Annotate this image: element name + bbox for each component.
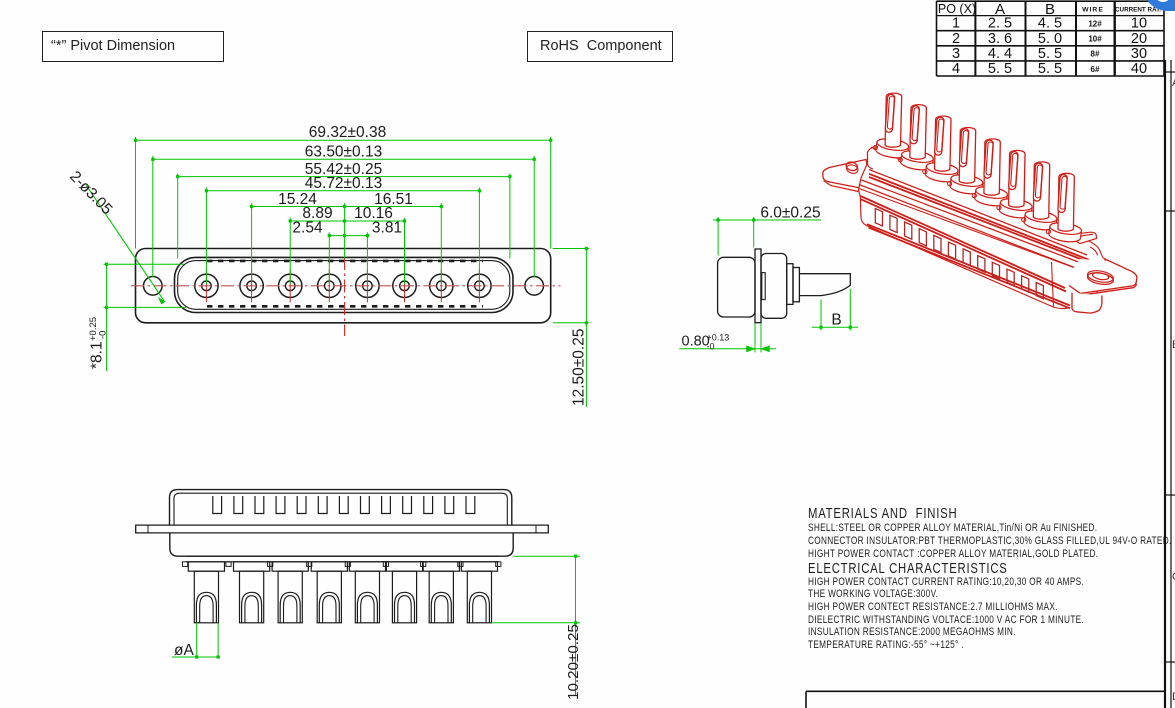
specification table — [0, 0, 1175, 90]
dimension 10.20±0.25 — [514, 555, 581, 557]
rear view: contact 5 barrel and pin — [349, 562, 385, 571]
3D view: top far edge — [871, 147, 1085, 239]
rear view: mounting flange — [136, 525, 549, 533]
side view: neck step 1 — [787, 264, 793, 305]
3D view: right end shell block edge — [1093, 283, 1097, 293]
front view: power contact 4 — [318, 274, 341, 297]
front view: power contact 2 — [240, 274, 263, 297]
3D view: flange left wing thickness edge — [824, 181, 864, 193]
front view: power contact 3 — [279, 274, 302, 297]
3D view: left end silhouette edges — [859, 147, 878, 197]
front view: connector body outline — [136, 249, 551, 323]
materials and finish notes — [808, 507, 1172, 652]
dimension 8.89 / 10.16 — [290, 220, 404, 222]
3D view: flange right wing thickness edge — [1080, 284, 1136, 295]
3D view: 12 skirt contact holes — [875, 209, 882, 227]
dimension 45.72±0.13 — [206, 190, 479, 192]
rear view: contact 4 barrel and pin — [311, 562, 347, 571]
3D view: mounting flange left wing — [823, 160, 868, 190]
3D view: right end cap block — [1085, 240, 1107, 275]
front view: shell edge dashes bottom — [207, 305, 483, 308]
front view: D-shell outer outline — [175, 257, 514, 312]
side view: contact flange plate — [755, 249, 761, 323]
front view: contact 2 red crosshair — [251, 269, 253, 302]
front view: D-shell inner outline — [178, 261, 510, 310]
3D view: mounting flange right wing — [1062, 259, 1137, 293]
rear view: contact 8 barrel and pin — [461, 562, 497, 571]
dimension 15.24 / 16.51 — [252, 206, 442, 208]
dimension øA — [196, 623, 198, 658]
front view: power contact 1 — [195, 274, 218, 297]
front view: power contact 5 — [356, 274, 379, 297]
front view: red vertical centerline — [344, 257, 346, 336]
side view: inner gasket line — [762, 273, 765, 300]
front view: power contact 6 — [393, 274, 416, 297]
rear view: contact 1 barrel and pin — [188, 562, 224, 571]
front view: contact 8 red crosshair — [478, 269, 480, 302]
side view: contact cup body — [718, 257, 755, 317]
dimension 69.32±0.38 — [136, 139, 551, 141]
3D view: cap left end inner edge — [868, 152, 874, 169]
rear view: contact 6 barrel and pin — [386, 562, 422, 571]
pivot dimension label box — [42, 31, 224, 62]
rear view: shell outline — [170, 490, 512, 525]
3D view: polarization tab near pin 8 — [1072, 232, 1097, 243]
front view: contact 6 red crosshair — [404, 269, 406, 302]
dimension 12.50±0.25 (right vertical) — [585, 249, 587, 408]
front view: shell edge dashes top — [207, 260, 483, 263]
3D view: body silhouette fill — [859, 147, 1107, 308]
rear view: contact 3 barrel and pin — [272, 562, 308, 571]
front view: contact 7 red crosshair — [440, 269, 442, 302]
front view: power contact 7 — [430, 274, 453, 297]
rear view: contact 7 barrel and pin — [423, 562, 459, 571]
dimension 0.80 +0.13/-0 — [679, 348, 776, 350]
front view: mounting hole right — [525, 277, 544, 296]
front view: mounting hole left — [144, 277, 163, 296]
3D view: flange left wing hole — [845, 161, 858, 172]
3D view: 8 power pins with bosses and slotted tips — [875, 137, 909, 160]
3D view: skirt right end block under flange — [1052, 262, 1054, 308]
3D view: bottom silhouette edge — [861, 218, 1068, 309]
dimension 63.50±0.13 — [153, 158, 534, 160]
dimension B — [820, 300, 822, 331]
dimension 2.54 / 3.81 — [329, 235, 367, 237]
rear view: insulator body — [170, 533, 513, 556]
dimension 55.42±0.25 — [178, 176, 510, 178]
rear view: shell slots — [213, 496, 222, 514]
3D view: flange right wing oval hole — [1087, 271, 1115, 286]
front view: contact 5 red crosshair — [366, 269, 368, 302]
side view: contact body block — [761, 254, 787, 319]
front view: contact 1 red crosshair — [205, 269, 207, 302]
front view: power contact 8 — [468, 274, 491, 297]
rear view: shell inner wall — [174, 493, 507, 525]
3D view: long body edge lines — [869, 170, 1087, 256]
front view: contact 3 red crosshair — [289, 269, 291, 302]
RoHS label box — [527, 31, 673, 62]
side view: wire tail — [799, 274, 850, 296]
rear view: contact 2 barrel and pin — [234, 562, 270, 571]
front view: contact 4 red crosshair — [328, 269, 330, 302]
dimension 6.0±0.25 — [713, 219, 821, 221]
front view: red horizontal centerline — [131, 285, 561, 287]
dimension *8.1 +0.25/-0 (left vertical) — [106, 264, 108, 371]
leader 2-ø3.05 to mounting hole — [86, 185, 165, 302]
rear view: insulator base strip — [186, 555, 498, 557]
blue overlay badge top-right corner — [1142, 0, 1175, 11]
side view: neck step 2 — [793, 268, 799, 302]
rear view: base notches — [183, 562, 188, 567]
